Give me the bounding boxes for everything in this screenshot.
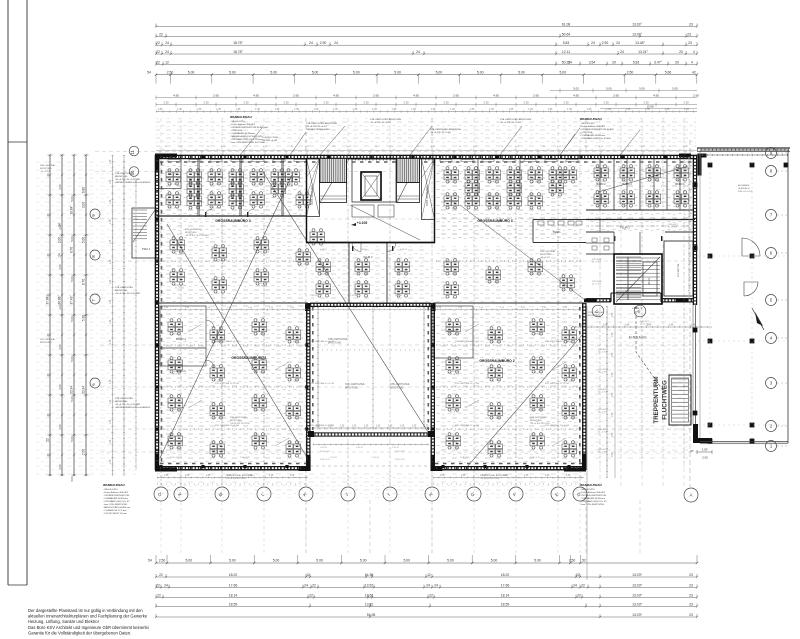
extra tick chain above north facade short <box>156 150 697 152</box>
svg-text:24 +2.705: 24 +2.705 <box>592 284 602 286</box>
corner mark courtyard top-right <box>431 303 436 311</box>
svg-text:22: 22 <box>156 583 160 587</box>
svg-text:2.39: 2.39 <box>523 101 529 105</box>
svg-text:1.35: 1.35 <box>216 108 221 111</box>
svg-text:23: 23 <box>689 602 693 606</box>
svg-text:20: 20 <box>679 50 683 54</box>
svg-text:STB. VERTIKAL 24 +6.705: STB. VERTIKAL 24 +6.705 <box>310 424 335 427</box>
svg-text:WANDAUFBAU: WANDAUFBAU <box>103 483 125 487</box>
escape route dashed <box>636 306 664 392</box>
svg-text:GLASDACH: GLASDACH <box>738 187 750 190</box>
svg-text:54: 54 <box>147 71 151 75</box>
desk clusters grossraumbuero 2 <box>446 319 461 335</box>
perimeter emphasis courtyard north <box>310 302 431 304</box>
core stair hatch darker <box>320 196 346 199</box>
svg-text:STB. VERTIKAL 24 +6.705: STB. VERTIKAL 24 +6.705 <box>455 340 480 343</box>
svg-text:1.35: 1.35 <box>587 108 592 111</box>
teekueche room wall <box>532 220 534 243</box>
corner reinforcement top-right <box>679 154 707 176</box>
svg-text:12: 12 <box>165 60 169 64</box>
entrance dimension chain <box>575 326 712 328</box>
ascending diagonal left wing <box>160 175 292 458</box>
svg-text:1.35: 1.35 <box>236 108 241 111</box>
bottom dimension row 18.02 <box>156 576 697 578</box>
svg-text:13.03°: 13.03° <box>632 33 642 37</box>
corner reinforcement east wing south-west <box>584 299 596 303</box>
svg-text:2.08 / 4.76: 2.08 / 4.76 <box>395 451 405 453</box>
svg-text:24: 24 <box>334 41 338 45</box>
stairwell west <box>320 159 347 203</box>
svg-text:5.00: 5.00 <box>360 559 367 563</box>
svg-text:3.54: 3.54 <box>589 60 596 64</box>
texture mid lower <box>436 246 582 302</box>
svg-text:22: 22 <box>159 573 163 577</box>
svg-text:5.00: 5.00 <box>229 559 236 563</box>
svg-text:GRUNDSTEINLEGUNG: GRUNDSTEINLEGUNG <box>306 129 330 131</box>
svg-text:24 +2.705: 24 +2.705 <box>592 262 602 264</box>
courtyard dimension chain <box>313 427 429 429</box>
texture bottom note zone <box>157 472 587 498</box>
canopy bottom edge <box>700 441 788 443</box>
svg-text:5.00: 5.00 <box>403 559 410 563</box>
svg-text:5.00: 5.00 <box>185 559 192 563</box>
svg-text:22: 22 <box>576 573 580 577</box>
convector band inside south facade left wing <box>160 463 306 465</box>
svg-text:3.47°: 3.47° <box>654 60 663 64</box>
svg-text:4.90: 4.90 <box>253 94 259 98</box>
svg-text:22: 22 <box>156 60 160 64</box>
svg-text:+4.105: +4.105 <box>357 221 368 225</box>
svg-text:2.90: 2.90 <box>602 41 609 45</box>
svg-text:- bzw. STB.-FERTIGTEIL: - bzw. STB.-FERTIGTEIL <box>103 504 128 506</box>
texture top note zone <box>156 118 696 152</box>
svg-text:2.39: 2.39 <box>443 101 449 105</box>
svg-text:2.39: 2.39 <box>203 101 209 105</box>
svg-text:STB. VERTIKAL 24 +6.705: STB. VERTIKAL 24 +6.705 <box>215 382 240 385</box>
elevator walls darker <box>361 172 381 200</box>
dense chain below mid partition <box>160 309 580 311</box>
column markers along south facades <box>159 465 162 468</box>
svg-text:22: 22 <box>156 41 160 45</box>
svg-text:BRÜSTUNG: BRÜSTUNG <box>345 387 359 390</box>
east exterior vertical chain 3 <box>586 306 588 580</box>
escape stair tower <box>669 375 691 425</box>
svg-text:5.00: 5.00 <box>312 71 319 75</box>
canopy east edge <box>787 150 789 443</box>
svg-text:4.90: 4.90 <box>653 94 659 98</box>
svg-text:13.03*: 13.03* <box>632 593 642 597</box>
tick chain below south facade right wing <box>433 477 584 479</box>
svg-text:23: 23 <box>689 573 693 577</box>
svg-text:4.90: 4.90 <box>173 94 179 98</box>
perimeter emphasis east facade <box>692 155 694 305</box>
canopy columns west line <box>693 183 698 188</box>
svg-text:BÜRO 6: BÜRO 6 <box>176 369 186 373</box>
svg-text:TRH 1: TRH 1 <box>142 247 151 251</box>
svg-text:5.00: 5.00 <box>518 71 525 75</box>
left chains denser ticks <box>49 154 51 156</box>
top dimension row 5.00 bays <box>156 74 697 76</box>
grid bubble C-prime <box>592 305 604 317</box>
grid bubble 10 top-left <box>129 167 139 177</box>
convector band inside courtyard west wall <box>312 307 314 430</box>
svg-text:2.50: 2.50 <box>702 456 708 460</box>
desk clusters mid band offices <box>444 167 459 183</box>
desk clusters top band offices <box>166 169 181 185</box>
svg-text:17.66: 17.66 <box>501 583 510 587</box>
svg-text:2.39: 2.39 <box>683 101 689 105</box>
svg-text:2.39: 2.39 <box>283 101 289 105</box>
svg-text:2.39: 2.39 <box>363 101 369 105</box>
svg-text:1.35 24: 1.35 24 <box>330 457 338 459</box>
svg-text:24: 24 <box>426 583 430 587</box>
corner reinforcement top-left <box>155 154 177 172</box>
svg-text:2.60: 2.60 <box>213 94 219 98</box>
corner reinforcement bottom-left <box>155 454 177 472</box>
svg-text:22: 22 <box>312 583 316 587</box>
desk clusters connector offices <box>316 259 331 275</box>
svg-text:13.03*: 13.03* <box>632 602 642 606</box>
svg-text:13.24°: 13.24° <box>638 50 648 54</box>
svg-text:2.39: 2.39 <box>483 101 489 105</box>
courtyard center vertical chain <box>372 306 374 430</box>
svg-text:1.35: 1.35 <box>567 108 572 111</box>
svg-text:17.66: 17.66 <box>229 583 238 587</box>
svg-text:18.59: 18.59 <box>229 602 238 606</box>
svg-text:61.08: 61.08 <box>562 22 571 26</box>
courtyard line end joints <box>308 431 314 437</box>
leader diagonals to facade notes <box>240 128 262 155</box>
micro dimension chains along interior grid rows <box>160 260 305 262</box>
desk clusters east band <box>594 165 609 181</box>
svg-text:2.08 / 4.76: 2.08 / 4.76 <box>320 459 330 461</box>
svg-text:2.39: 2.39 <box>243 101 249 105</box>
svg-text:STB.-VERTIKAL: STB.-VERTIKAL <box>40 164 56 167</box>
left wing courtyard-side wall <box>306 303 308 470</box>
east band desks second row <box>594 191 609 207</box>
svg-text:- Folien Balkone 356.08/2: - Folien Balkone 356.08/2 <box>103 492 129 494</box>
facade dimension chain upper <box>156 97 697 99</box>
desk clusters mid band lower <box>444 259 459 275</box>
bottom grid bubbles <box>154 487 168 501</box>
desk clusters grossraumbuero 4 <box>170 237 185 253</box>
perimeter emphasis courtyard sides <box>306 303 308 470</box>
svg-text:1.48: 1.48 <box>581 325 586 327</box>
svg-text:1.35: 1.35 <box>158 108 163 111</box>
svg-text:52: 52 <box>582 559 586 563</box>
svg-text:18.02: 18.02 <box>501 573 510 577</box>
svg-text:12.11: 12.11 <box>562 50 570 54</box>
right grid bubbles <box>766 148 777 159</box>
east band extra partitions <box>599 158 601 210</box>
east exterior vertical chain 2 <box>614 306 616 478</box>
svg-text:13.48°: 13.48° <box>635 41 645 45</box>
svg-text:STB. VERTIKAL 24 +6.705: STB. VERTIKAL 24 +6.705 <box>455 382 480 385</box>
svg-text:23: 23 <box>687 33 691 37</box>
svg-text:5.00: 5.00 <box>70 476 74 482</box>
east band corridor wall upper <box>586 219 695 221</box>
svg-text:STB. VERTIKAL 24 +6.705: STB. VERTIKAL 24 +6.705 <box>215 424 240 427</box>
svg-text:aktuellen Innenarchitekturplän: aktuellen Innenarchitekturplänen und Fac… <box>28 614 148 619</box>
svg-text:22: 22 <box>157 593 161 597</box>
partition wall office x282 <box>281 158 283 216</box>
east core stairwell <box>614 254 662 304</box>
canopy columns mid field <box>708 254 713 259</box>
svg-text:2.39: 2.39 <box>563 101 569 105</box>
svg-text:24: 24 <box>164 583 168 587</box>
core walls emphasis <box>307 159 435 243</box>
svg-text:5.00: 5.00 <box>229 71 236 75</box>
svg-text:51.08: 51.08 <box>367 613 376 617</box>
svg-text:1.35: 1.35 <box>314 108 319 111</box>
canopy columns row 1 <box>708 163 713 168</box>
svg-text:4.90: 4.90 <box>413 94 419 98</box>
svg-text:13.62: 13.62 <box>365 593 374 597</box>
svg-text:42: 42 <box>692 71 696 75</box>
svg-text:18.14: 18.14 <box>501 593 510 597</box>
top band desk third column <box>187 181 202 197</box>
svg-text:2.60: 2.60 <box>693 94 699 98</box>
desk clusters grossraumbuero 1 <box>168 319 183 335</box>
left wing north zone desks extra <box>296 192 311 208</box>
left chains emphasis <box>49 155 51 476</box>
svg-text:Das Büro KSV Architekt und Ing: Das Büro KSV Architekt und Ingenieure Gb… <box>28 625 149 630</box>
svg-text:24: 24 <box>616 41 620 45</box>
east inner tick chain <box>688 158 690 300</box>
svg-text:50.64: 50.64 <box>562 33 571 37</box>
svg-text:2.39: 2.39 <box>323 101 329 105</box>
east band partition 2 <box>639 158 641 210</box>
radiator blocks along grb windows <box>168 160 180 162</box>
desk leader marks <box>188 324 202 332</box>
svg-text:1.35: 1.35 <box>431 108 436 111</box>
svg-text:1.35: 1.35 <box>177 108 182 111</box>
svg-text:18.59: 18.59 <box>501 602 510 606</box>
wing window mullion dots north <box>160 156 161 158</box>
svg-text:5.83: 5.83 <box>633 60 640 64</box>
right bubble leader ticks <box>777 152 788 154</box>
svg-text:23: 23 <box>689 593 693 597</box>
leader diagonal east band <box>598 166 688 192</box>
svg-text:1.35: 1.35 <box>400 426 405 428</box>
buero room door arcs <box>206 320 214 328</box>
svg-text:54: 54 <box>148 559 152 563</box>
north facade wall <box>155 154 697 156</box>
convector band inside south facade right wing <box>435 463 582 465</box>
svg-text:- UNTERKONSTRUKTION: - UNTERKONSTRUKTION <box>103 495 130 497</box>
door swing left band 2 <box>247 209 254 216</box>
svg-text:- bzw. STB.-FERTIGTEIL: - bzw. STB.-FERTIGTEIL <box>580 504 605 506</box>
left dimension chain 37.84 <box>49 155 51 476</box>
south facade wall right wing <box>431 466 586 468</box>
east band partition 1 <box>613 158 615 210</box>
corner reinforcement right wing inner-left <box>431 455 443 471</box>
svg-text:22: 22 <box>581 583 585 587</box>
svg-text:AS FASADE: AS FASADE <box>738 184 750 187</box>
facade dimension chain middle <box>156 104 697 106</box>
svg-text:- STB WAND (405) 24 x 32: - STB WAND (405) 24 x 32 <box>103 500 130 503</box>
core south wall <box>307 242 435 244</box>
sheet border divider bottom <box>8 584 27 586</box>
svg-text:2.39: 2.39 <box>603 101 609 105</box>
svg-text:2.30°: 2.30° <box>702 448 709 452</box>
svg-text:22: 22 <box>156 50 160 54</box>
wing window mullion dots south <box>160 467 161 469</box>
connector partition east <box>386 243 388 303</box>
east wing south facade with entrance recess <box>586 298 611 300</box>
svg-text:24: 24 <box>568 60 572 64</box>
svg-text:22: 22 <box>159 33 163 37</box>
svg-text:5.00: 5.00 <box>477 71 484 75</box>
top dimension row total 61.08 <box>156 26 697 28</box>
svg-text:5.00: 5.00 <box>270 71 277 75</box>
svg-text:1.35: 1.35 <box>388 426 393 428</box>
svg-text:5.00: 5.00 <box>573 87 579 91</box>
svg-text:1.35: 1.35 <box>294 108 299 111</box>
svg-text:1.35: 1.35 <box>412 426 417 428</box>
svg-text:23: 23 <box>689 613 693 617</box>
corner reinforcement east wing south-east <box>676 299 688 303</box>
svg-text:PUTZMITTEL: PUTZMITTEL <box>678 262 680 276</box>
svg-text:1.35: 1.35 <box>352 426 357 428</box>
svg-text:5.83: 5.83 <box>563 41 570 45</box>
svg-text:24: 24 <box>416 50 420 54</box>
courtyard east tick chain <box>423 307 425 427</box>
east core stair rail <box>627 257 629 300</box>
svg-text:A: A <box>690 492 693 497</box>
svg-text:18.14: 18.14 <box>229 593 238 597</box>
svg-text:18.78°: 18.78° <box>233 41 243 45</box>
svg-text:4.90: 4.90 <box>333 94 339 98</box>
svg-text:BRÜSTUNG: BRÜSTUNG <box>390 387 404 390</box>
svg-text:23: 23 <box>688 41 692 45</box>
partition wall office x240 <box>239 158 241 216</box>
svg-text:-24 +6.705: -24 +6.705 <box>40 171 51 173</box>
svg-text:22: 22 <box>577 593 581 597</box>
grid line A dashed vertical <box>689 140 691 487</box>
east band office wall <box>590 209 693 211</box>
svg-text:13.08: 13.08 <box>647 105 654 109</box>
perimeter emphasis west <box>154 155 156 470</box>
svg-text:2.08 / 4.76: 2.08 / 4.76 <box>320 451 330 453</box>
core top tick band <box>320 159 434 161</box>
svg-text:5.00: 5.00 <box>534 559 541 563</box>
svg-text:5.00: 5.00 <box>273 559 280 563</box>
svg-text:2.50: 2.50 <box>569 559 576 563</box>
svg-text:5.00: 5.00 <box>436 71 443 75</box>
elevator shaft <box>352 159 396 202</box>
svg-text:- WELLE EP10: - WELLE EP10 <box>103 489 118 491</box>
svg-text:STB. VERTIKAL 24 +6.705: STB. VERTIKAL 24 +6.705 <box>545 424 570 427</box>
leader diagonal right wing <box>466 333 584 468</box>
svg-text:5.00: 5.00 <box>606 87 612 91</box>
east facade wall <box>692 155 694 305</box>
top dimension row 18.78 <box>156 44 697 46</box>
canopy door swing 1 <box>742 238 760 256</box>
svg-text:5.00: 5.00 <box>559 71 566 75</box>
svg-text:23: 23 <box>689 22 693 26</box>
svg-text:13.03*: 13.03* <box>632 583 642 587</box>
bottom dimension row 17.66 <box>156 587 697 589</box>
north arrow flag <box>755 312 763 326</box>
svg-text:24: 24 <box>165 41 169 45</box>
grid bubble B-prime <box>634 305 646 317</box>
structural grid vertical lines <box>160 118 162 487</box>
door swing core south 1 <box>352 243 361 252</box>
svg-text:STB. VERTIKAL 24 +6.705: STB. VERTIKAL 24 +6.705 <box>310 382 335 385</box>
texture left band <box>160 161 306 215</box>
svg-text:Heizung, Lüftung, Sanitär und: Heizung, Lüftung, Sanitär und Elektro! <box>28 619 99 624</box>
dashed grid extensions to bottom dimensions <box>305 500 307 556</box>
svg-text:5.00: 5.00 <box>639 87 645 91</box>
grid bubble 11 top-left <box>129 146 139 156</box>
svg-text:22: 22 <box>429 593 433 597</box>
svg-text:1.35: 1.35 <box>364 426 369 428</box>
top dimension row 12.11 <box>156 53 697 55</box>
svg-text:- ABDICHTUNG 44.866 mm: - ABDICHTUNG 44.866 mm <box>103 506 130 509</box>
texture connector <box>311 246 429 302</box>
tick chain courtyard lower <box>313 444 429 446</box>
east corridor dashes <box>586 225 695 227</box>
svg-text:5.66: 5.66 <box>665 71 672 75</box>
perimeter emphasis east facade right wing <box>582 303 584 470</box>
courtyard north facade wall <box>310 302 431 304</box>
svg-text:22: 22 <box>309 593 313 597</box>
svg-text:5.00: 5.00 <box>316 559 323 563</box>
corner mark courtyard top-left <box>305 303 310 311</box>
svg-text:13.03*: 13.03* <box>632 613 642 617</box>
svg-text:1.35: 1.35 <box>411 108 416 111</box>
svg-text:2.50: 2.50 <box>627 71 634 75</box>
svg-text:2.08 / 4.76: 2.08 / 4.76 <box>395 459 405 461</box>
svg-text:5.00: 5.00 <box>447 559 454 563</box>
svg-text:2.60: 2.60 <box>373 94 379 98</box>
svg-text:24: 24 <box>309 41 313 45</box>
sheet border divider top <box>8 141 27 143</box>
east band partitions extra <box>599 220 601 233</box>
column markers along north facade <box>159 155 162 158</box>
svg-text:24: 24 <box>591 41 595 45</box>
perimeter emphasis south left wing <box>155 469 310 471</box>
mid partition emphasis <box>157 302 308 304</box>
left facade tick chain <box>112 155 114 476</box>
svg-text:45°: 45° <box>690 449 694 453</box>
small room top-left corner <box>159 159 181 189</box>
svg-text:Der dargestellte Planstand ist: Der dargestellte Planstand ist nur gülti… <box>28 608 143 613</box>
bubble leader dashes bottom <box>160 502 162 556</box>
svg-text:2.50: 2.50 <box>159 559 166 563</box>
east core emphasis <box>614 254 662 304</box>
svg-text:5.00: 5.00 <box>491 559 498 563</box>
buero 4 room <box>160 306 206 366</box>
svg-text:-24 +6.705 -26 +5.34: -24 +6.705 -26 +5.34 <box>306 126 327 128</box>
svg-text:1.35 24: 1.35 24 <box>356 447 364 449</box>
top band partition double lines <box>199 158 201 216</box>
texture mid band <box>436 161 582 241</box>
svg-text:1.35: 1.35 <box>372 108 377 111</box>
convector band inside north facade <box>160 161 692 163</box>
svg-text:4.90: 4.90 <box>573 94 579 98</box>
svg-text:1.35: 1.35 <box>255 108 260 111</box>
canopy top tick line <box>697 154 788 156</box>
svg-text:4.90: 4.90 <box>493 94 499 98</box>
leader diagonal mid band <box>460 205 585 300</box>
core extra hatch elevator <box>361 172 381 200</box>
courtyard west tick chain <box>317 307 319 427</box>
convector band inside east facade right wing <box>579 307 581 463</box>
right wing courtyard-side wall <box>430 303 432 470</box>
svg-text:2.39: 2.39 <box>403 101 409 105</box>
